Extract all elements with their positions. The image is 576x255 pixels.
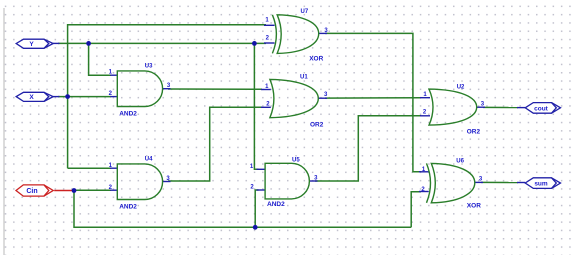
svg-text:AND2: AND2 [267, 201, 285, 208]
svg-text:U3: U3 [145, 64, 153, 70]
svg-text:U2: U2 [457, 84, 465, 90]
svg-text:cout: cout [534, 106, 549, 113]
svg-text:U6: U6 [456, 158, 464, 164]
svg-text:XOR: XOR [309, 55, 323, 62]
svg-text:AND2: AND2 [119, 203, 137, 210]
svg-text:U7: U7 [301, 9, 309, 15]
svg-text:U4: U4 [145, 157, 153, 163]
svg-text:Y: Y [29, 41, 34, 48]
svg-text:Cin: Cin [26, 188, 37, 195]
svg-text:sum: sum [534, 181, 548, 188]
svg-text:XOR: XOR [467, 203, 481, 210]
svg-text:X: X [29, 94, 34, 101]
svg-text:U5: U5 [292, 158, 300, 164]
svg-text:OR2: OR2 [467, 128, 481, 135]
svg-text:U1: U1 [300, 75, 308, 81]
svg-text:AND2: AND2 [119, 110, 137, 117]
svg-text:OR2: OR2 [310, 122, 324, 129]
